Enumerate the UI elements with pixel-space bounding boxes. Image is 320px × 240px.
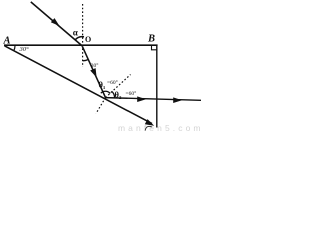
arrowhead exit ray 2 xyxy=(173,97,182,103)
svg-text:=60°: =60° xyxy=(126,90,137,97)
svg-text:O: O xyxy=(85,35,91,44)
refraction angle arc at O xyxy=(83,60,89,61)
svg-text:30°: 30° xyxy=(19,46,30,53)
svg-text:30°: 30° xyxy=(91,62,99,69)
surface AC hypotenuse xyxy=(5,46,153,124)
normal at V2 dotted upper xyxy=(106,75,131,98)
svg-text:B: B xyxy=(147,34,155,45)
arrowhead on incident ray xyxy=(51,18,60,26)
theta1 arc xyxy=(101,91,110,93)
svg-text:θ₁: θ₁ xyxy=(99,80,106,90)
scan squiggle under AC arrowhead xyxy=(145,126,152,130)
right-angle mark at B xyxy=(152,45,158,50)
exit ray xyxy=(106,98,202,101)
arrowhead on AC xyxy=(145,119,154,126)
face BC vertical line xyxy=(156,45,158,127)
svg-text:=60°: =60° xyxy=(107,79,118,86)
normal at O dotted xyxy=(82,4,84,67)
angle 30 arc at A xyxy=(14,46,15,51)
svg-text:α: α xyxy=(73,28,78,38)
svg-text:A: A xyxy=(3,36,11,47)
svg-text:manfen5.com: manfen5.com xyxy=(118,123,201,133)
incident ray xyxy=(31,2,83,46)
angle alpha arc xyxy=(75,37,84,41)
arrowhead on refracted ray xyxy=(90,68,96,77)
arrowhead exit ray 1 xyxy=(137,96,146,102)
normal at V2 dotted lower xyxy=(96,98,106,114)
theta2 arc xyxy=(112,91,115,98)
surface AB xyxy=(4,44,158,46)
refracted ray O to V2 xyxy=(82,46,105,97)
